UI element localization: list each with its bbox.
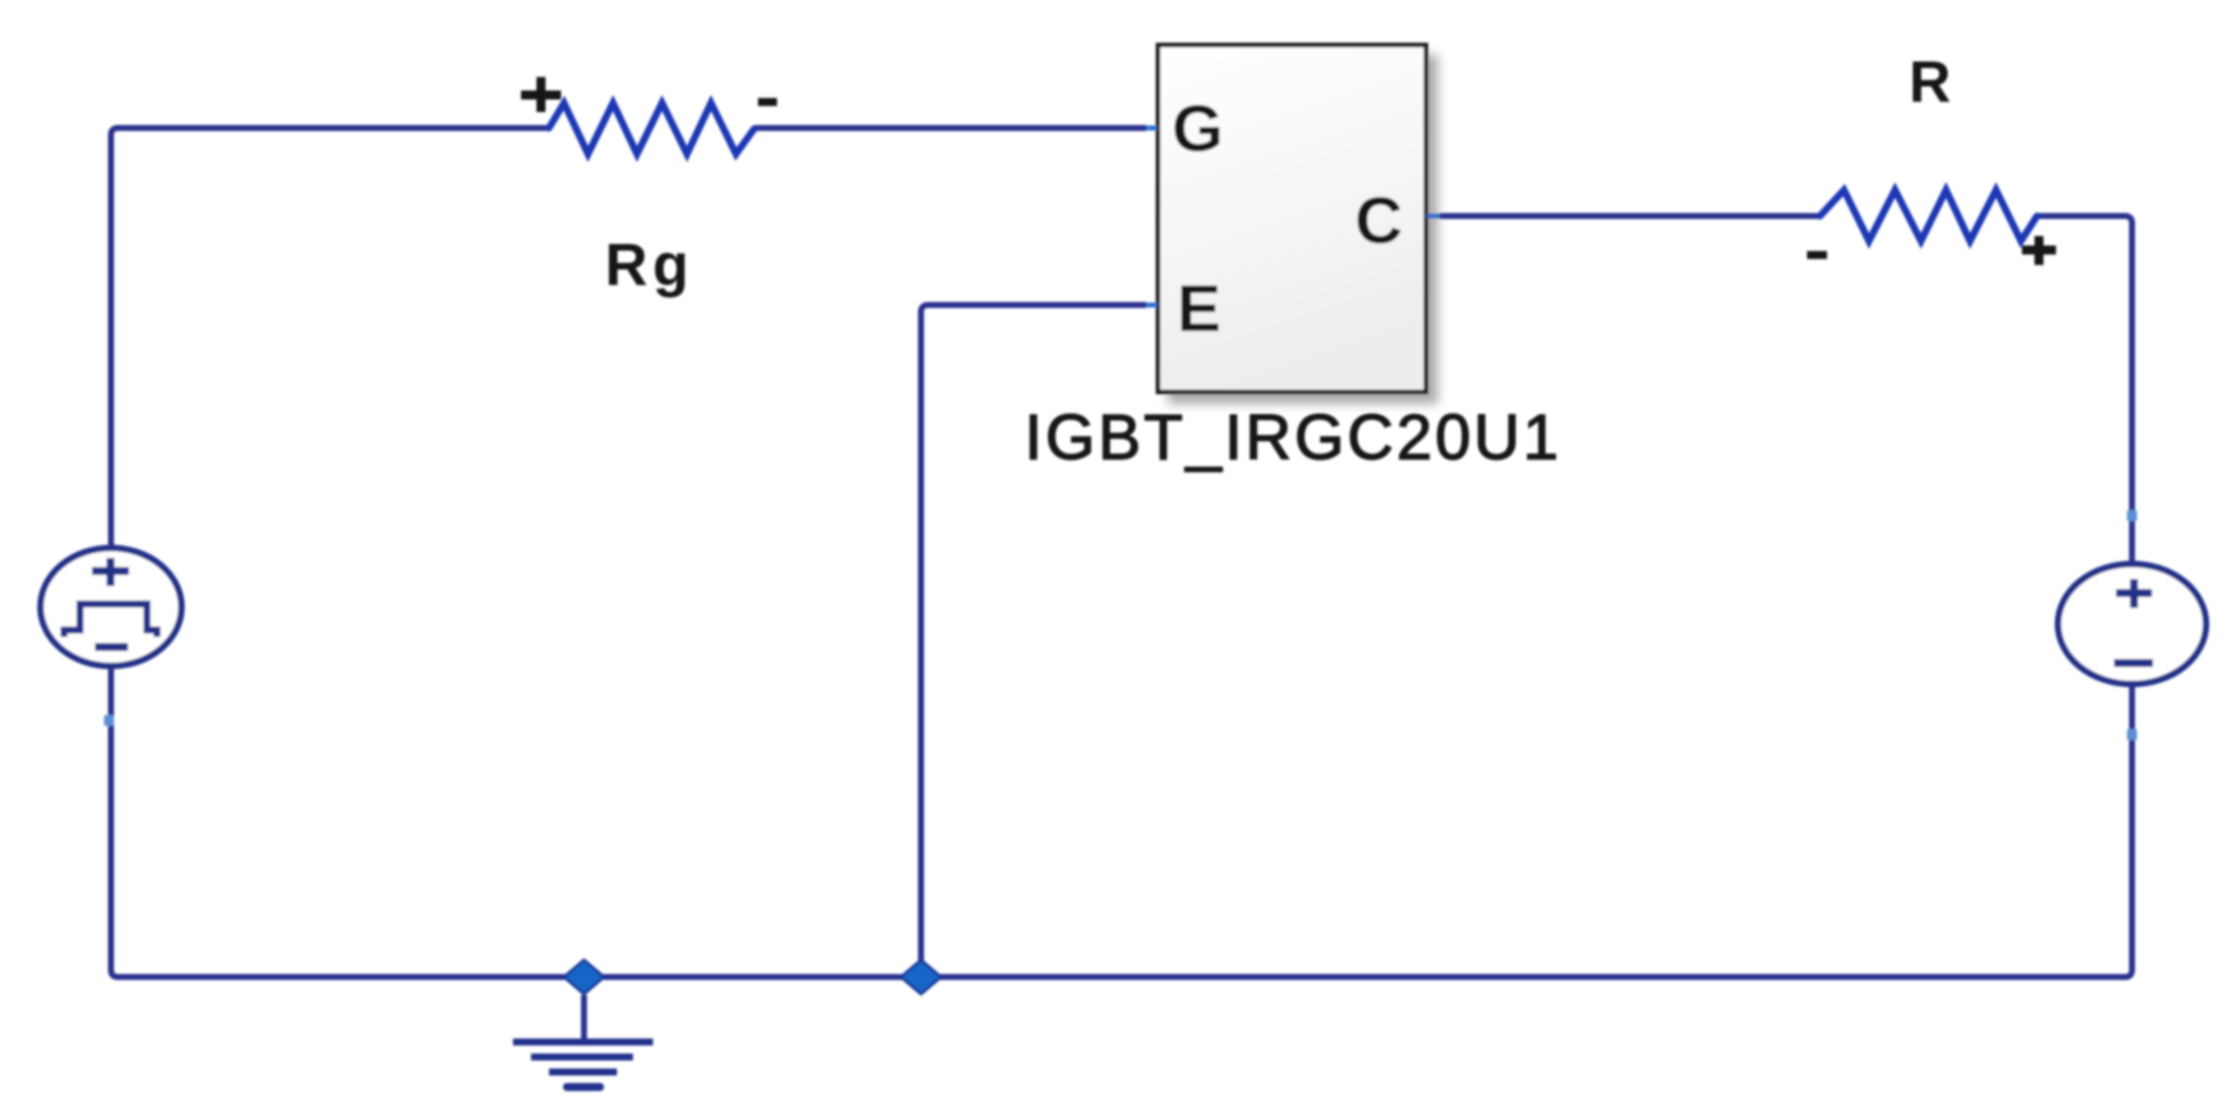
svg-text:IGBT_IRGC20U1: IGBT_IRGC20U1 xyxy=(1025,401,1562,473)
svg-text:C: C xyxy=(1355,183,1403,257)
svg-text:E: E xyxy=(1177,271,1221,345)
svg-text:R: R xyxy=(1909,50,1951,115)
svg-text:Rg: Rg xyxy=(605,232,694,298)
svg-text:G: G xyxy=(1172,91,1223,165)
